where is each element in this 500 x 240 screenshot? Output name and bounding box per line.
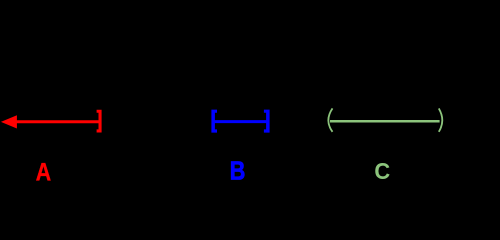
interval A: red ray arrowhead — [1, 115, 17, 128]
interval C: green left parenthesis ( — [328, 108, 332, 131]
svg-text:A: A — [36, 159, 52, 187]
interval C: green right parenthesis ) — [439, 108, 443, 131]
svg-text:C: C — [374, 158, 390, 184]
interval A: red closed endpoint bracket ] — [97, 110, 102, 133]
interval C: green shaft — [330, 120, 440, 123]
interval A: red ray shaft — [10, 120, 99, 123]
interval B: blue right bracket ] — [264, 110, 270, 133]
interval B: blue left bracket [ — [211, 110, 217, 133]
interval B: blue shaft — [213, 120, 268, 123]
svg-text:B: B — [230, 157, 246, 185]
